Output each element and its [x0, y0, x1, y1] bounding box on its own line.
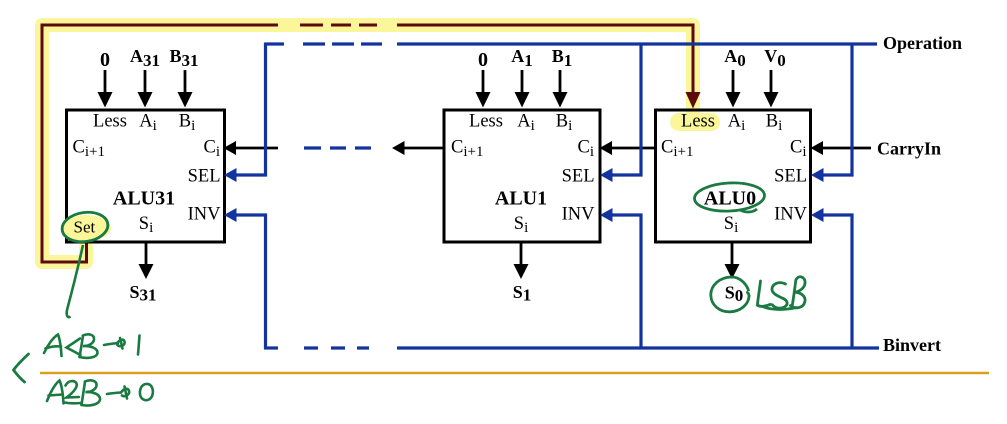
wire: input B1 arrow: [553, 70, 568, 108]
svg-text:INV: INV: [562, 205, 596, 225]
ALU block ALU0: [656, 110, 811, 242]
wire: dark red solid top-right portion turning down to ALU0 Less: [397, 25, 693, 94]
annotation: green ellipse around Set: [60, 209, 110, 244]
wire: dark red dashed continuation segment (top): [300, 24, 377, 27]
node: control signal labels: [877, 33, 962, 355]
svg-text:ALU0: ALU0: [704, 188, 756, 210]
wire: input V0 arrow: [764, 70, 779, 108]
wire: Binvert line dashed segment: [304, 346, 369, 349]
wire: Binvert rise to ALU31 INV: [224, 208, 266, 350]
annotation: green tail of ALU0 ellipse: [740, 209, 757, 212]
wire: Operation line solid right portion: [397, 42, 877, 45]
annotation: green ellipse around ALU0: [694, 181, 765, 213]
wire: input A31 arrow: [138, 70, 153, 108]
node: top input labels: [100, 46, 786, 71]
wire: Binvert line solid right portion: [397, 346, 879, 349]
wire: ALU0 Ci+1 to ALU1 Ci: [600, 141, 657, 155]
svg-text:SEL: SEL: [774, 167, 807, 187]
wire: input 0 arrow into ALU31 Less: [98, 70, 113, 108]
wire: Operation drop to ALU1 SEL: [600, 43, 641, 183]
wire: input 0 arrow into ALU1 Less: [476, 70, 491, 108]
arrowhead: dark red into Less of ALU0: [686, 92, 701, 109]
svg-text:Less: Less: [93, 112, 127, 132]
wire: dark red stub entering ALU0 over yellow: [692, 94, 695, 96]
wire: Operation drop to ALU0 SEL: [811, 43, 852, 183]
annotation: green handwritten "A<B->1": [44, 334, 140, 358]
wire: input A0 arrow: [726, 70, 741, 108]
svg-text:INV: INV: [188, 205, 222, 225]
wire: Operation line (top, blue) solid left stub: [266, 42, 285, 45]
node: ALU1 pin labels: [451, 112, 595, 237]
wire: Binvert rise to ALU1 INV: [600, 208, 641, 350]
svg-text:0: 0: [100, 49, 110, 71]
wire: input B31 arrow: [178, 70, 193, 108]
node: sum output labels: [129, 282, 743, 305]
ALU block ALU31: [67, 110, 225, 242]
wire: S1 output arrow: [514, 242, 529, 279]
svg-text:CarryIn: CarryIn: [877, 139, 941, 159]
wire: Binvert rise to ALU0 INV: [811, 208, 852, 350]
highlighter: yellow band over Less label in ALU0: [686, 100, 700, 116]
wire: S0 output arrow: [725, 242, 740, 279]
annotation: green circle around S0: [711, 277, 749, 312]
svg-text:ALU31: ALU31: [113, 188, 175, 210]
wire: dark red Set-to-Less wire, solid left/bottom portion: [42, 25, 278, 262]
wire: orange separator line: [40, 372, 989, 374]
svg-text:Less: Less: [469, 112, 503, 132]
highlighter: yellow path along Set-to-Less feedback wire: [42, 25, 693, 262]
svg-text:SEL: SEL: [188, 167, 221, 187]
svg-text:Operation: Operation: [883, 33, 962, 53]
node: ALU0 pin labels: [661, 112, 808, 237]
annotation: green handwritten "A>=B->0": [47, 380, 153, 405]
wire: Binvert line (bottom, blue) solid left stub: [265, 346, 279, 349]
wire: CarryIn into ALU0 Ci: [811, 141, 872, 155]
wire: Operation line dashed segment: [303, 42, 382, 45]
wire: ALU0 box top edge redrawn over highlight: [681, 109, 707, 112]
svg-text:Less: Less: [681, 112, 715, 132]
svg-text:S1: S1: [513, 282, 532, 305]
wire: Operation drop to ALU31 SEL: [224, 43, 266, 183]
svg-text:S31: S31: [129, 282, 156, 305]
wire: blue dashed carry continuation between ALU31 and ALU1: [304, 146, 371, 149]
annotation: green handwritten LSB: [757, 277, 805, 310]
wire: S31 output arrow: [139, 242, 154, 279]
wire: CarryIn chain into ALU31 Ci: [224, 141, 279, 155]
svg-text:Binvert: Binvert: [883, 335, 941, 355]
svg-text:0: 0: [478, 49, 488, 71]
svg-text:S0: S0: [725, 283, 744, 306]
svg-text:INV: INV: [774, 205, 808, 225]
highlighter: yellow blob behind Set label: [61, 215, 111, 241]
wire: ALU1 Ci+1 carry-out arrow to the left: [392, 141, 444, 155]
node: ALU31 pin labels: [73, 112, 222, 237]
annotation: green pointer line from Set to handwriting: [67, 245, 83, 317]
svg-text:SEL: SEL: [562, 167, 595, 187]
svg-text:Set: Set: [74, 218, 96, 237]
wire: input A1 arrow: [515, 70, 530, 108]
annotation: green angle bracket at left: [14, 354, 29, 382]
ALU block ALU1: [444, 110, 600, 242]
svg-text:ALU1: ALU1: [495, 188, 547, 210]
